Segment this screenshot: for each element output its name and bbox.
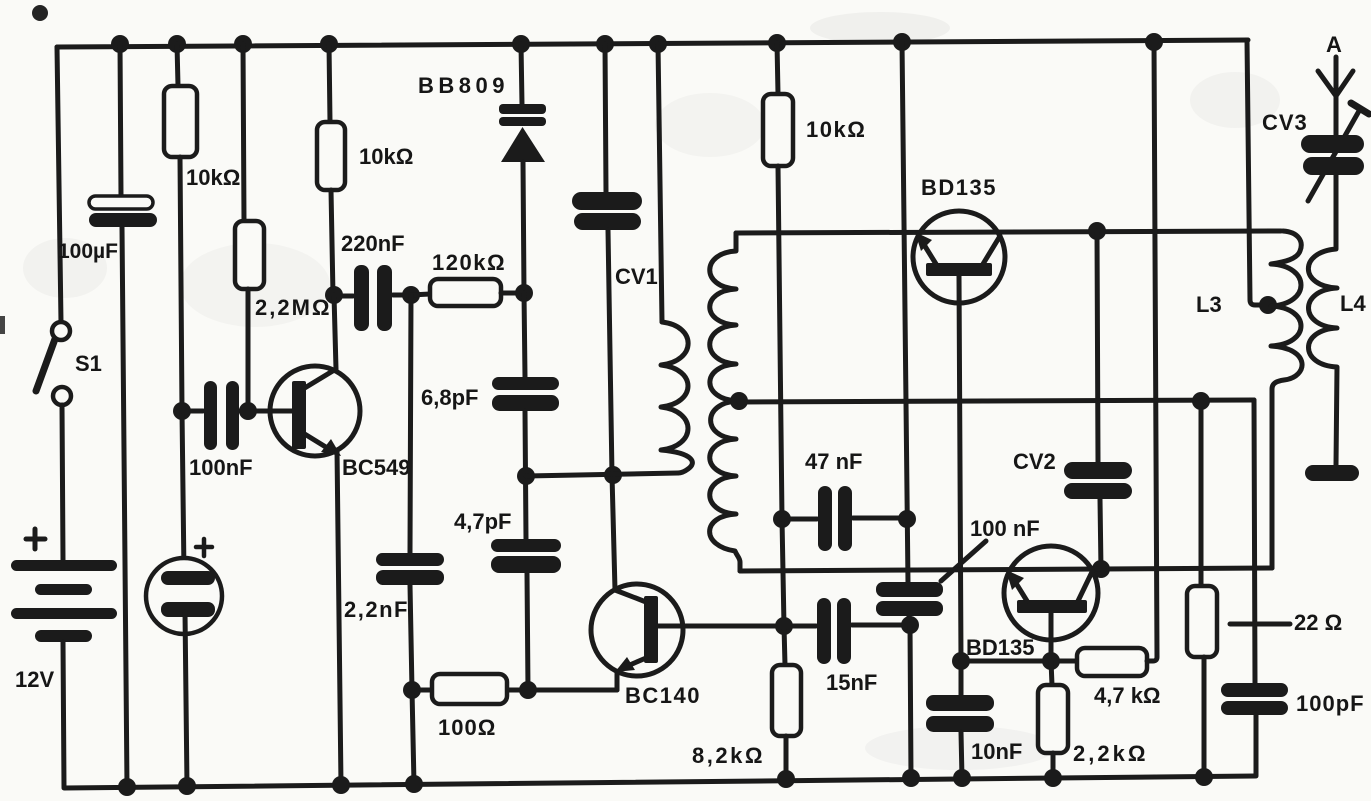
wire rail to 10k third [777, 43, 778, 94]
label 22 ohm [1294, 610, 1342, 635]
resistor 10k (second) [317, 122, 345, 190]
svg-text:12V: 12V [15, 667, 54, 692]
svg-text:220nF: 220nF [341, 231, 405, 256]
svg-text:A: A [1326, 32, 1342, 57]
wire collector line y570 [740, 568, 1272, 571]
wire top +12V rail [57, 40, 1248, 47]
node bias / base BD135 second [1042, 652, 1060, 670]
wire rail to 2.2M [243, 44, 244, 221]
label 120k [432, 250, 506, 275]
svg-text:100Ω: 100Ω [438, 715, 496, 740]
node CV1 / tank line [604, 466, 622, 484]
transistor Q1 BC549 [270, 366, 360, 456]
wire 8.2k to bottom rail [784, 736, 789, 779]
capacitor electrolytic plus sign [196, 539, 212, 556]
capacitor variable CV2 [1064, 462, 1132, 499]
wire node to 10nF [959, 661, 964, 695]
node BB809 / 120k / 6.8pF [515, 284, 533, 302]
wire 4.7k right up to top rail [1147, 42, 1157, 661]
wire node to electrolytic [182, 411, 184, 573]
svg-text:10kΩ: 10kΩ [186, 165, 240, 190]
svg-text:15nF: 15nF [826, 670, 877, 695]
wire CV2 line lower [1100, 499, 1101, 569]
svg-text:4,7 kΩ: 4,7 kΩ [1094, 683, 1161, 708]
node top rail / decoupling line [893, 33, 911, 51]
label 100uF [58, 240, 118, 263]
svg-text:BC549: BC549 [342, 455, 410, 480]
node 220nF / 120k / 2.2nF [402, 286, 420, 304]
wire BB809 to 120k node [523, 162, 524, 293]
svg-text:100µF: 100µF [58, 240, 118, 263]
label BB809 [418, 73, 509, 98]
wire 2.2nF line upper [410, 295, 411, 553]
capacitor 10nF [926, 695, 994, 732]
label S1 [75, 351, 102, 376]
svg-text:BD135: BD135 [966, 635, 1034, 660]
wire base BD135 first down [959, 276, 961, 661]
wire node to bottom rail [412, 690, 414, 784]
label pointer 100nF coupling [941, 541, 986, 581]
node bottom rail / 2.2k [1044, 769, 1062, 787]
wire CV2 line upper [1097, 231, 1098, 462]
node top rail / 4.7k riser [1145, 33, 1163, 51]
wire 10k to base node [180, 157, 182, 411]
node tap line / 22 ohm [1192, 392, 1210, 410]
wire electrolytic to bottom rail [185, 612, 187, 786]
label 15nF [826, 670, 877, 695]
wire left rail down to S1 [57, 47, 61, 322]
wire rail to L1 [658, 44, 662, 322]
label CV2 [1013, 449, 1056, 474]
capacitor 47nF [818, 486, 852, 551]
wire node to bottom rail [910, 625, 911, 778]
wire emitter BC549 to bottom rail [337, 450, 341, 785]
svg-text:BB809: BB809 [418, 73, 509, 98]
node top rail / 10k third [768, 34, 786, 52]
node bottom rail / 2.2nF line [405, 775, 423, 793]
wire 100nF coupling to 15nF node [909, 616, 910, 625]
node 15nF right [901, 616, 919, 634]
node 100 ohm left [403, 681, 421, 699]
svg-text:S1: S1 [75, 351, 102, 376]
label 220nF [341, 231, 405, 256]
label BC549 [342, 455, 410, 480]
svg-text:6,8pF: 6,8pF [421, 385, 478, 410]
node emitter line / 4.7pF [519, 681, 537, 699]
diode BB809 varicap [499, 104, 546, 162]
capacitor 15nF [817, 598, 851, 664]
wire 6.8pF to tank node [525, 411, 526, 539]
node bottom rail / 8.2k [777, 770, 795, 788]
wire base line BC549 [182, 409, 294, 414]
node L3 tap [1259, 296, 1277, 314]
resistor 2.2k [1038, 685, 1068, 753]
label 100nF coupling [970, 516, 1040, 541]
wire rail to 10k [177, 44, 178, 86]
wire node to 15nF node [782, 519, 784, 626]
svg-text:47 nF: 47 nF [805, 449, 862, 474]
label 47nF [805, 449, 862, 474]
node 47nF left [773, 510, 791, 528]
svg-text:BD135: BD135 [921, 175, 997, 200]
transistor Q2 BC140 [591, 584, 683, 676]
wire 10k second to collector node [331, 190, 333, 295]
svg-text:10kΩ: 10kΩ [359, 144, 413, 169]
label 10k third [806, 117, 866, 142]
arrow CV3 variable [1308, 103, 1369, 201]
wire emitter BC140 to emitter line [615, 672, 620, 690]
node top rail / CV1 line [596, 35, 614, 53]
wire 22 ohm line upper [1199, 401, 1204, 586]
label 2.2k [1073, 741, 1148, 766]
label L4 [1340, 291, 1366, 316]
wire rail to 10k second [329, 44, 330, 122]
wire 10nF to bottom rail [961, 732, 962, 778]
node emitter line / CV2 [1088, 222, 1106, 240]
capacitor 100nF coupling [876, 582, 943, 616]
inductor L4 [1308, 175, 1337, 465]
label BD135 first [921, 175, 997, 200]
svg-text:100pF: 100pF [1296, 691, 1365, 716]
node top rail / L1 feed [649, 35, 667, 53]
svg-text:L3: L3 [1196, 292, 1222, 317]
label BC140 [625, 683, 701, 708]
wire collector BC549 up [334, 295, 336, 369]
svg-text:2,2MΩ: 2,2MΩ [255, 295, 332, 320]
wire CV1 to collector BC140 [608, 230, 615, 590]
svg-text:22 Ω: 22 Ω [1294, 610, 1342, 635]
transistor Q4 BD135 second [1004, 546, 1098, 640]
resistor 2.2M [235, 221, 264, 289]
label 2.2M [255, 295, 332, 320]
node top rail / 10k line [168, 35, 186, 53]
node top rail / 10k second line [320, 35, 338, 53]
wire 2.2M to base node [246, 289, 251, 411]
node collector line / CV2 [1092, 560, 1110, 578]
wire 100pF to bottom rail end [1254, 715, 1259, 776]
switch S1 [36, 322, 71, 405]
wire node to 120k [411, 294, 430, 295]
resistor 22 ohm [1187, 586, 1217, 657]
capacitor C 100uF [89, 196, 157, 227]
resistor 10k (left) [164, 86, 197, 157]
svg-text:CV2: CV2 [1013, 449, 1056, 474]
wire rail to CV1 [605, 44, 606, 192]
wire base BC140 line [658, 625, 910, 626]
node base bias / 10nF [952, 652, 970, 670]
wire emitter line y231 left [736, 231, 1281, 233]
node 100nF left [173, 402, 191, 420]
wire node to 6.8pF [524, 293, 525, 377]
capacitor 100pF [1221, 683, 1288, 715]
svg-text:100 nF: 100 nF [970, 516, 1040, 541]
node top rail / 2.2M line [234, 35, 252, 53]
wire 2.2nF line lower [410, 585, 412, 690]
label 4.7pF [454, 509, 511, 534]
wire tap line y402 [739, 400, 1254, 402]
svg-text:10nF: 10nF [971, 739, 1022, 764]
svg-text:10kΩ: 10kΩ [806, 117, 866, 142]
wire 100uF to bottom rail [122, 227, 127, 787]
wire tank line 6.8pF to coil L1 [526, 473, 678, 476]
label 8.2k [692, 743, 765, 768]
node bottom rail / electrolytic [178, 777, 196, 795]
label CV1 [615, 264, 658, 289]
wire battery to bottom rail [63, 642, 64, 787]
wire rail to BB809 [521, 44, 522, 105]
resistor 4.7k [1077, 648, 1147, 676]
wire 4.7pF to emitter line [527, 573, 528, 690]
label 100pF [1296, 691, 1365, 716]
label 6.8pF [421, 385, 478, 410]
capacitor variable CV1 [572, 192, 642, 230]
antenna arrow [1318, 57, 1353, 135]
wire S1 to battery [62, 405, 63, 560]
label 10k second [359, 144, 413, 169]
capacitor 6.8pF [492, 377, 559, 411]
label L3 [1196, 292, 1222, 317]
label 100 ohm [438, 715, 496, 740]
wire rail down to 100nF coupling [902, 42, 908, 583]
wire 10k third down to 47nF node [778, 166, 782, 519]
node base BC549 / 2.2M [239, 402, 257, 420]
node bottom rail / 22 ohm [1195, 768, 1213, 786]
wire 2.2k to bottom rail [1051, 753, 1056, 778]
node bottom rail / coupling line [902, 769, 920, 787]
wire node to 8.2k [784, 626, 785, 665]
label pointer 22 ohm [1230, 622, 1290, 627]
svg-text:4,7pF: 4,7pF [454, 509, 511, 534]
resistor 120k [430, 279, 501, 306]
node 15nF left / base BC140 [775, 617, 793, 635]
capacitor electrolytic [146, 558, 222, 634]
wire bias line to 4.7k [961, 659, 1077, 664]
node bottom rail / 100uF line [118, 778, 136, 796]
svg-text:BC140: BC140 [625, 683, 701, 708]
svg-text:L4: L4 [1340, 291, 1366, 316]
svg-text:8,2kΩ: 8,2kΩ [692, 743, 765, 768]
label 10k left [186, 165, 240, 190]
capacitor 220nF [354, 265, 392, 331]
wire 47nF line [782, 518, 907, 519]
svg-text:2,2nF: 2,2nF [344, 597, 409, 622]
node top rail / BB809 line [512, 35, 530, 53]
inductor L1 primary coil [661, 322, 692, 473]
node L2 tap [730, 392, 748, 410]
wire emitter line BC140 [412, 672, 617, 690]
svg-text:100nF: 100nF [189, 455, 253, 480]
wire top rail right corner down [1247, 40, 1266, 305]
ground bar L4 [1305, 465, 1359, 481]
inductor L3 [1271, 231, 1302, 568]
node bottom rail / emitter BC549 [332, 776, 350, 794]
node collector BC549 / 220nF [325, 286, 343, 304]
node bottom rail / 10nF [953, 769, 971, 787]
label CV3 [1262, 110, 1308, 135]
label 2.2nF [344, 597, 409, 622]
resistor 8.2k [772, 665, 801, 736]
wire 120k to BB809 node [501, 291, 523, 296]
wire node to 2.2k [1051, 661, 1052, 685]
wire bottom ground rail [64, 776, 1255, 788]
wire 220nF to 120k node [393, 293, 411, 298]
svg-text:CV3: CV3 [1262, 110, 1308, 135]
resistor 100 ohm [432, 674, 507, 704]
node top rail / 100uF line [111, 35, 129, 53]
transistor Q3 BD135 first [913, 211, 1005, 303]
resistor 10k (third) [763, 94, 793, 166]
node 47nF right [898, 510, 916, 528]
wire tap line corner down 100pF [1254, 400, 1255, 683]
capacitor variable CV3 [1301, 135, 1364, 175]
wire base BD135 second [1049, 613, 1054, 661]
battery 12V plus sign [26, 529, 45, 549]
wire 22 ohm to bottom rail [1202, 657, 1207, 777]
wire rail to 100uF [120, 44, 121, 196]
capacitor 4.7pF [491, 539, 561, 573]
label 100nF input [189, 455, 253, 480]
label 12V [15, 667, 54, 692]
node tank / 6.8pF / CV1 line [517, 467, 535, 485]
label 10nF [971, 739, 1022, 764]
svg-text:2,2kΩ: 2,2kΩ [1073, 741, 1148, 766]
inductor L2 secondary coil [710, 233, 740, 571]
label antenna A [1326, 32, 1342, 57]
wire node to 220nF [334, 294, 353, 299]
svg-text:CV1: CV1 [615, 264, 658, 289]
battery 12V [11, 560, 117, 642]
capacitor 100nF input [204, 381, 239, 450]
capacitor 2.2nF [376, 553, 444, 585]
label BD135 second [966, 635, 1034, 660]
label 4.7k [1094, 683, 1161, 708]
svg-text:120kΩ: 120kΩ [432, 250, 506, 275]
